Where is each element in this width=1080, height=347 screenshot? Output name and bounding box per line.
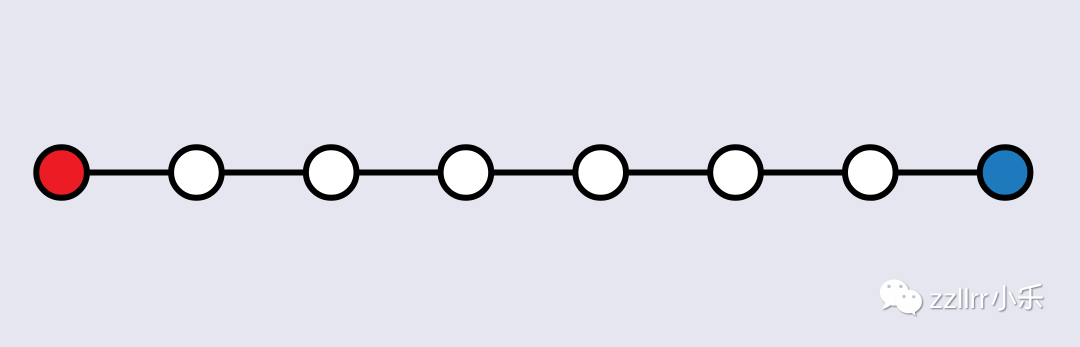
- watermark text zzllrr: [929, 283, 988, 314]
- wechat big bubble: [880, 279, 909, 309]
- node 3 (white): [306, 147, 357, 198]
- svg-text:zzllrr: zzllrr: [929, 283, 988, 314]
- watermark: wechat icon + zzllrr xiaole: [870, 270, 1060, 330]
- node 2 (white): [171, 147, 222, 198]
- node 5 (white): [575, 147, 626, 198]
- hanzi le: [1019, 285, 1042, 308]
- wechat eyes: [887, 285, 890, 288]
- hanzi xiao: [993, 286, 1015, 309]
- wire: horizontal edge line connecting all nodes: [62, 170, 1006, 176]
- node 7 (white): [845, 147, 896, 198]
- node 4 (white): [441, 147, 492, 198]
- node 8 (blue): [980, 147, 1031, 198]
- node 6 (white): [710, 147, 761, 198]
- wechat small bubble: [896, 290, 922, 316]
- node 1 (red): [36, 147, 87, 198]
